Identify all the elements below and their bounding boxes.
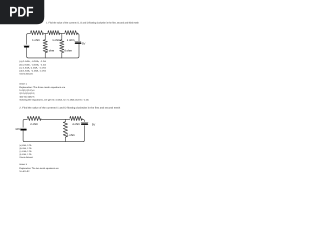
svg-text:Given Answer:: Given Answer: — [19, 156, 33, 159]
resistor R8 1 ohm shunt — [64, 119, 66, 121]
resistor R7 4 ohm — [70, 116, 82, 120]
svg-text:Answer: b: Answer: b — [19, 163, 27, 166]
resistor R3 1 ohm — [65, 31, 78, 35]
resistor R2 1 ohm — [48, 31, 60, 35]
wire: bottom rail — [27, 44, 79, 58]
svg-text:10-1(I1)-2(I1-I2)=0: 10-1(I1)-2(I1-I2)=0 — [19, 89, 34, 92]
svg-text:Solving the equations, we get: Solving the equations, we get I1=1.54A, … — [19, 99, 88, 102]
svg-text:1 ohm: 1 ohm — [52, 39, 60, 42]
svg-text:1 ohm: 1 ohm — [32, 39, 40, 42]
svg-text:2 ohm: 2 ohm — [47, 49, 55, 52]
svg-text:(a) 0.96A, 1.73A: (a) 0.96A, 1.73A — [19, 144, 31, 147]
svg-text:10=5I1-4I2: 10=5I1-4I2 — [19, 170, 29, 173]
svg-text:2. Find the value of the curre: 2. Find the value of the currents I1 and… — [19, 106, 120, 109]
resistor R4 2 ohm shunt — [44, 34, 46, 40]
svg-text:2 ohm: 2 ohm — [30, 123, 38, 126]
wire: top rail node B segment — [60, 32, 65, 34]
svg-text:(d) -0.96A, -1.73A: (d) -0.96A, -1.73A — [19, 153, 31, 156]
svg-text:1. Find the value of the curre: 1. Find the value of the currents I1, I2… — [46, 21, 139, 24]
wire: top rail left — [27, 34, 31, 45]
svg-text:10V: 10V — [15, 128, 20, 131]
svg-text:(c) -0.96A, 1.73A: (c) -0.96A, 1.73A — [19, 150, 31, 153]
svg-text:4 ohm: 4 ohm — [72, 123, 80, 126]
resistor R5 4 ohm shunt — [61, 34, 63, 40]
svg-text:(a) 1.54A, -0.18A, -1.1A: (a) 1.54A, -0.18A, -1.1A — [19, 60, 46, 63]
wire: top rail node A segment — [44, 32, 48, 34]
svg-text:(b) 0.96A, -1.73A: (b) 0.96A, -1.73A — [19, 147, 31, 150]
svg-text:4(I2-I3)=1(I3)+5: 4(I2-I3)=1(I3)+5 — [19, 95, 34, 98]
svg-text:(d) 1.54A, -0.18A, 1.17A: (d) 1.54A, -0.18A, 1.17A — [19, 70, 46, 73]
battery V4 5V right — [81, 122, 88, 124]
svg-text:Explanation: The three mesh eq: Explanation: The three mesh equations ar… — [19, 86, 65, 89]
resistor R6 2 ohm — [27, 116, 41, 120]
wire: top rail middle segment 2 — [41, 118, 70, 120]
svg-text:PDF: PDF — [9, 4, 33, 20]
svg-text:Answer: a: Answer: a — [19, 82, 27, 85]
svg-text:(b) 2.54A, -0.18A, -1.1A: (b) 2.54A, -0.18A, -1.1A — [19, 63, 46, 66]
wire: top rail right corner down — [78, 34, 80, 41]
wire: top rail left 2 — [23, 119, 27, 127]
svg-text:1 ohm: 1 ohm — [67, 39, 75, 42]
wire: top rail right corner down 2 — [82, 119, 84, 121]
svg-text:Explanation: The two mesh equa: Explanation: The two mesh equations are — [19, 167, 58, 170]
svg-text:(c) 1.54A, 0.18A, -1.17A: (c) 1.54A, 0.18A, -1.17A — [19, 66, 46, 69]
svg-text:1 ohm: 1 ohm — [67, 134, 75, 137]
svg-text:2(I1-I2)=1(I2)+4(I2-I3): 2(I1-I2)=1(I2)+4(I2-I3) — [19, 92, 34, 95]
wire: bottom rail 2 — [23, 126, 84, 142]
battery V1 10V left — [24, 44, 30, 46]
battery V3 10V left — [20, 127, 26, 129]
resistor R1 1 ohm — [31, 31, 44, 35]
svg-text:Given Answer:: Given Answer: — [19, 73, 33, 76]
svg-text:5V: 5V — [82, 42, 86, 45]
PDF badge — [0, 0, 44, 24]
svg-text:5V: 5V — [92, 123, 96, 126]
battery V2 5V right — [75, 41, 82, 43]
svg-text:4 ohm: 4 ohm — [64, 49, 72, 52]
